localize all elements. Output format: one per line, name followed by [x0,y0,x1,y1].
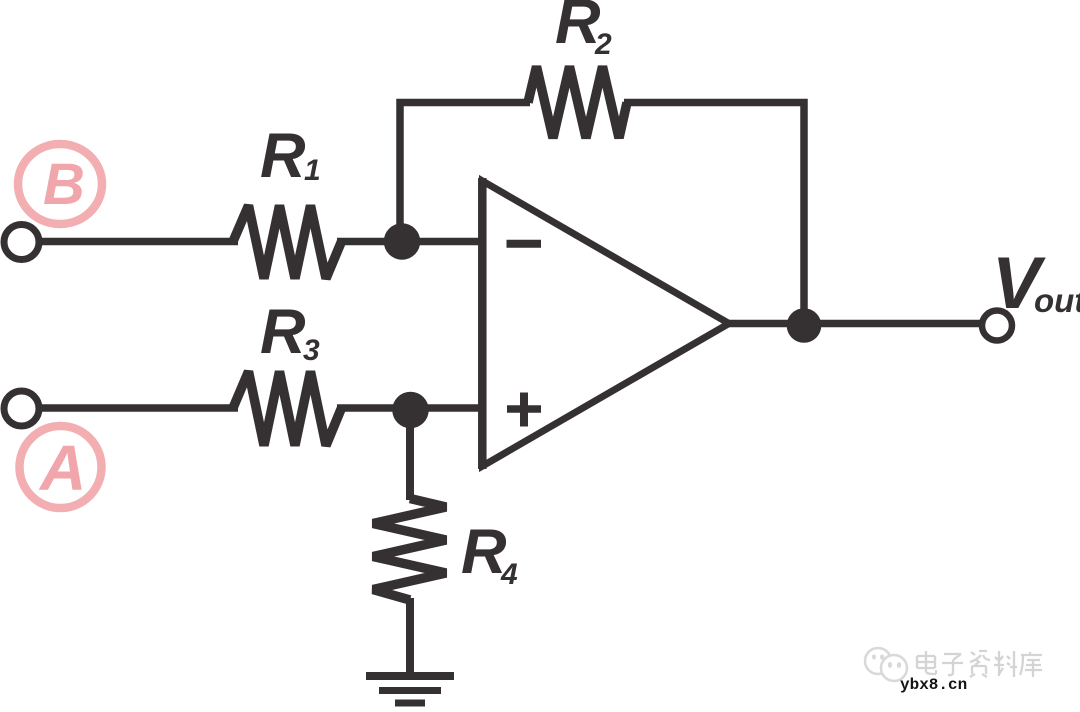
svg-text:A: A [38,432,86,504]
svg-text:4: 4 [500,558,518,591]
svg-text:2: 2 [594,28,612,61]
svg-text:1: 1 [304,154,321,187]
svg-text:ybx8.cn: ybx8.cn [900,676,967,694]
svg-text:3: 3 [303,334,320,367]
svg-text:B: B [43,152,85,217]
svg-text:R: R [260,121,306,191]
svg-text:out: out [1034,282,1080,319]
svg-text:R: R [260,297,306,367]
